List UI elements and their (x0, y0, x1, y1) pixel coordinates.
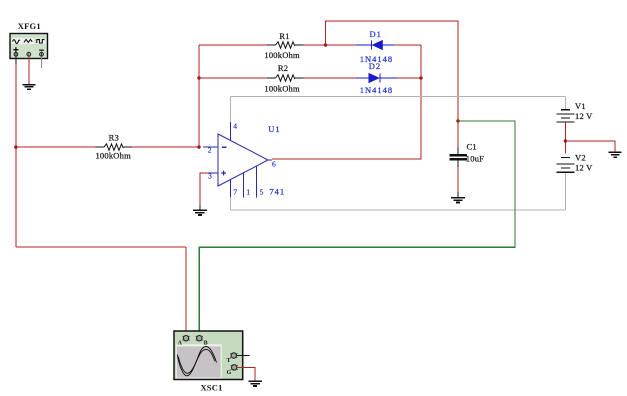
svg-text:1: 1 (246, 188, 250, 197)
scope trace channel A (177, 347, 216, 376)
terminal G (232, 365, 237, 370)
wire down to scope input A (red vertical) (185, 247, 187, 335)
node junction dot D2 right (419, 76, 422, 79)
wire feedback right vertical (red): diode ends down to output line (272, 45, 421, 159)
battery V2 12V (556, 153, 593, 173)
node junction dot at op-amp pin2 (197, 145, 200, 148)
wire C1 node to scope B (green) (199, 121, 515, 336)
ground under C1 (451, 198, 465, 203)
node junction dot at C1 top (456, 119, 459, 122)
svg-text:D1: D1 (370, 29, 382, 39)
svg-text:7: 7 (233, 188, 237, 197)
pin 1 (243, 173, 245, 198)
wire inverting node vertical (red) (198, 45, 200, 147)
function generator XFG1 (10, 21, 48, 59)
svg-text:100kOhm: 100kOhm (264, 50, 300, 60)
svg-text:B: B (204, 341, 208, 347)
svg-text:XSC1: XSC1 (200, 382, 222, 392)
wire XFG1 plus to node A (red vertical) (15, 64, 17, 247)
terminal A (183, 336, 188, 341)
svg-text:100kOhm: 100kOhm (264, 84, 300, 94)
pin 5 (256, 166, 258, 197)
svg-text:12 V: 12 V (575, 111, 593, 121)
svg-text:C1: C1 (467, 141, 477, 151)
wire scope T stub (black) (237, 355, 250, 357)
svg-text:741: 741 (269, 187, 285, 197)
svg-text:R2: R2 (278, 63, 288, 73)
ground at supply mid (609, 152, 622, 157)
wire pin3 to ground (red) (200, 173, 209, 205)
diode D2 (1N4148) (356, 61, 421, 95)
svg-text:R3: R3 (109, 132, 119, 142)
node A junction dot at R3 tap (14, 145, 17, 148)
ground at scope G (248, 381, 262, 386)
wire XFG1 common to ground (red) (28, 57, 30, 85)
svg-text:U1: U1 (268, 124, 280, 134)
wire power net top (grey) pin4 up and across to V1 (230, 96, 232, 122)
wire power net bottom (grey) pin7 down and across to V2 (230, 197, 232, 210)
resistor R1 (199, 31, 356, 60)
op-amp U1 (741) (203, 122, 285, 198)
svg-text:V2: V2 (575, 153, 586, 163)
svg-text:12 V: 12 V (575, 163, 593, 173)
terminal B (197, 336, 202, 341)
wire scope G to ground (red) (238, 367, 256, 381)
svg-text:XFG1: XFG1 (18, 21, 41, 31)
wire XFG1 minus stub (grey) (41, 57, 43, 69)
pin 3 stub (209, 172, 218, 174)
pin 7 (230, 180, 232, 198)
svg-text:V1: V1 (575, 101, 586, 111)
svg-text:A: A (178, 341, 183, 347)
ground under XFG1 common (22, 85, 35, 90)
svg-text:R1: R1 (279, 31, 289, 41)
terminal T (231, 353, 236, 358)
wire supply mid to ground (red) (565, 141, 615, 152)
battery V1 12V (556, 101, 593, 122)
pin 6 stub (268, 159, 272, 161)
wire bottom run to scope A (red horizontal) (16, 246, 186, 248)
ground under op-amp pin3 (193, 210, 207, 215)
svg-text:1N4148: 1N4148 (360, 85, 393, 95)
resistor R2 (199, 63, 356, 94)
oscilloscope XSC1 (174, 331, 243, 392)
node junction dot R1/D1/top-wire (324, 43, 327, 46)
node junction dot at R2 tap (197, 76, 200, 79)
wire top loop (red): D1-left node up and over to C1 node (326, 21, 459, 121)
svg-text:2: 2 (208, 146, 212, 155)
resistor R3 (16, 132, 199, 160)
pin 2 stub (203, 146, 218, 148)
wire V1 minus to V2 plus (red) with tap to ground (564, 123, 566, 154)
svg-text:4: 4 (233, 122, 237, 131)
svg-text:10uF: 10uF (466, 153, 484, 163)
pin 4 stub (230, 122, 232, 141)
capacitor C1 10uF (449, 121, 484, 198)
svg-text:6: 6 (272, 160, 276, 169)
scope trace channel B (178, 349, 215, 373)
diode D1 (1N4148) (356, 29, 421, 64)
svg-text:G: G (227, 370, 232, 376)
node junction dot supply mid (564, 139, 567, 142)
svg-text:T: T (227, 358, 231, 364)
svg-text:D2: D2 (369, 61, 381, 71)
svg-text:5: 5 (260, 188, 264, 197)
wire XFG1 plus lead (black stub) (15, 57, 17, 65)
svg-text:100kOhm: 100kOhm (95, 151, 131, 161)
